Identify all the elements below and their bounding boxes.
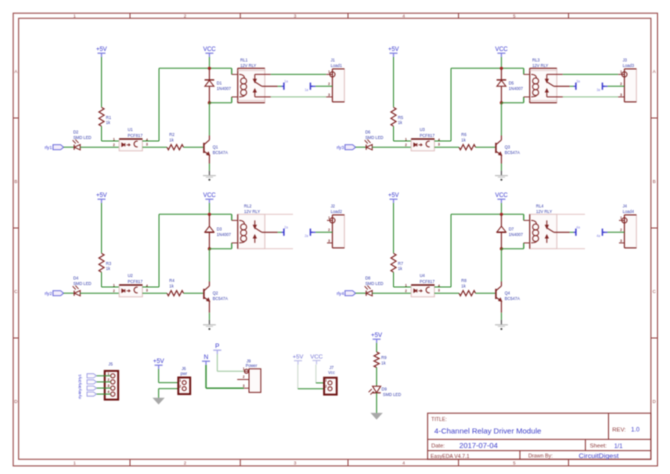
svg-text:Power: Power	[246, 363, 258, 368]
svg-text:4-Channel Relay Driver Module: 4-Channel Relay Driver Module	[434, 426, 541, 435]
svg-text:1a: 1a	[284, 80, 288, 84]
svg-text:2: 2	[243, 375, 245, 379]
svg-text:U1: U1	[128, 127, 134, 132]
svg-text:D6: D6	[365, 130, 371, 135]
svg-text:1: 1	[243, 367, 245, 371]
svg-text:1a: 1a	[305, 88, 309, 92]
svg-text:TITLE:: TITLE:	[431, 417, 447, 423]
svg-text:3a: 3a	[576, 80, 580, 84]
svg-text:EasyEDA V4.7.1: EasyEDA V4.7.1	[431, 454, 470, 460]
svg-text:rly4: rly4	[77, 392, 82, 399]
svg-text:Load3: Load3	[623, 63, 635, 68]
svg-text:5: 5	[513, 461, 516, 466]
svg-text:2: 2	[184, 13, 187, 18]
svg-text:2a: 2a	[305, 234, 309, 238]
svg-text:12V RLY: 12V RLY	[244, 209, 260, 214]
svg-text:BC547A: BC547A	[213, 296, 229, 301]
svg-text:R2: R2	[169, 132, 175, 137]
svg-text:2a: 2a	[284, 226, 288, 230]
svg-text:CircuitDigest: CircuitDigest	[579, 453, 619, 460]
svg-text:3: 3	[438, 289, 440, 293]
svg-text:rly1: rly1	[45, 145, 53, 150]
svg-text:B: B	[14, 179, 17, 184]
svg-text:1: 1	[73, 461, 76, 466]
svg-text:1k: 1k	[398, 120, 403, 125]
svg-text:2: 2	[108, 378, 110, 382]
svg-text:D2: D2	[73, 130, 79, 135]
svg-text:rly4: rly4	[337, 291, 345, 296]
svg-text:1k: 1k	[461, 283, 466, 288]
svg-text:4: 4	[402, 461, 405, 466]
svg-text:1: 1	[113, 284, 115, 288]
svg-text:1N4007: 1N4007	[217, 86, 232, 91]
svg-text:4a: 4a	[597, 234, 601, 238]
svg-text:1: 1	[179, 378, 181, 382]
svg-text:+5V: +5V	[371, 332, 383, 339]
svg-text:VCC: VCC	[203, 193, 216, 199]
svg-text:D5: D5	[509, 80, 515, 85]
svg-text:1: 1	[620, 216, 622, 220]
svg-text:1k: 1k	[398, 266, 403, 271]
svg-text:3: 3	[243, 384, 245, 388]
svg-text:+5V: +5V	[388, 193, 399, 199]
svg-text:4a: 4a	[576, 226, 580, 230]
svg-text:1: 1	[113, 138, 115, 142]
svg-text:1.0: 1.0	[631, 427, 640, 434]
svg-text:+5V: +5V	[388, 47, 399, 53]
svg-text:VCC: VCC	[203, 47, 216, 53]
svg-text:SMD LED: SMD LED	[365, 281, 383, 286]
svg-text:RL1: RL1	[240, 58, 248, 63]
svg-text:2: 2	[184, 461, 187, 466]
svg-text:RL2: RL2	[244, 204, 252, 209]
svg-text:3: 3	[294, 461, 297, 466]
svg-text:1k: 1k	[381, 361, 386, 366]
svg-text:2: 2	[325, 385, 327, 389]
svg-text:Load1: Load1	[331, 63, 343, 68]
svg-text:3: 3	[146, 143, 148, 147]
svg-text:12V RLY: 12V RLY	[532, 63, 548, 68]
svg-text:Sheet:: Sheet:	[590, 444, 607, 450]
svg-text:A: A	[653, 69, 657, 74]
svg-text:PCF817: PCF817	[420, 133, 436, 138]
svg-text:D7: D7	[509, 226, 515, 231]
svg-text:D9: D9	[382, 386, 388, 391]
svg-text:3: 3	[108, 384, 110, 388]
svg-text:Drawn By:: Drawn By:	[528, 454, 553, 460]
svg-text:2: 2	[328, 82, 330, 86]
svg-text:2: 2	[405, 289, 407, 293]
svg-text:1k: 1k	[461, 137, 466, 142]
svg-text:P: P	[215, 343, 219, 350]
svg-text:2: 2	[620, 82, 622, 86]
svg-text:VCC: VCC	[310, 354, 323, 360]
svg-text:R9: R9	[381, 355, 387, 360]
svg-text:rly1: rly1	[77, 373, 82, 380]
svg-text:Q4: Q4	[505, 290, 511, 295]
svg-text:D4: D4	[73, 276, 79, 281]
svg-text:2: 2	[113, 143, 115, 147]
svg-text:C: C	[14, 289, 18, 294]
svg-text:RL3: RL3	[532, 58, 540, 63]
svg-text:C: C	[653, 289, 657, 294]
svg-text:rly2: rly2	[45, 291, 53, 296]
svg-text:+5V: +5V	[96, 193, 107, 199]
svg-text:U3: U3	[420, 127, 426, 132]
svg-text:REV:: REV:	[612, 428, 626, 434]
svg-text:SMD LED: SMD LED	[73, 135, 91, 140]
svg-text:+5V: +5V	[96, 47, 107, 53]
svg-text:+5V: +5V	[293, 355, 304, 361]
svg-text:Q2: Q2	[213, 290, 219, 295]
svg-text:Load4: Load4	[623, 209, 635, 214]
svg-text:1: 1	[325, 379, 327, 383]
svg-text:12V RLY: 12V RLY	[536, 209, 552, 214]
svg-text:J1: J1	[331, 57, 336, 62]
svg-text:rly3: rly3	[337, 145, 345, 150]
svg-text:rly3: rly3	[77, 386, 82, 393]
svg-text:D3: D3	[217, 226, 223, 231]
svg-text:pwr: pwr	[180, 371, 187, 376]
svg-text:BC547A: BC547A	[505, 150, 521, 155]
svg-text:3a: 3a	[597, 88, 601, 92]
svg-text:12V RLY: 12V RLY	[240, 63, 256, 68]
svg-text:4: 4	[402, 13, 405, 18]
svg-text:PCF817: PCF817	[128, 133, 144, 138]
svg-text:1N4007: 1N4007	[509, 86, 524, 91]
svg-text:2: 2	[620, 228, 622, 232]
svg-text:1: 1	[405, 138, 407, 142]
svg-text:3: 3	[438, 143, 440, 147]
svg-text:RL4: RL4	[536, 204, 544, 209]
svg-text:2: 2	[328, 228, 330, 232]
svg-text:Date:: Date:	[431, 444, 445, 450]
svg-text:Q1: Q1	[213, 144, 219, 149]
svg-text:J3: J3	[623, 57, 628, 62]
svg-text:3: 3	[620, 239, 622, 243]
svg-text:VCC: VCC	[495, 47, 508, 53]
svg-text:A: A	[14, 69, 18, 74]
svg-text:Vcc: Vcc	[328, 370, 335, 375]
svg-text:4: 4	[108, 390, 110, 394]
svg-text:5: 5	[513, 13, 516, 18]
svg-text:1/1: 1/1	[614, 443, 623, 450]
svg-text:B: B	[653, 179, 656, 184]
svg-text:U2: U2	[128, 273, 134, 278]
svg-text:J2: J2	[331, 203, 336, 208]
svg-text:D8: D8	[365, 276, 371, 281]
svg-text:1: 1	[108, 372, 110, 376]
svg-text:R8: R8	[461, 278, 467, 283]
svg-text:3: 3	[294, 13, 297, 18]
svg-text:1k: 1k	[106, 266, 111, 271]
svg-text:1: 1	[405, 284, 407, 288]
svg-text:VCC: VCC	[495, 193, 508, 199]
svg-text:3: 3	[328, 93, 330, 97]
svg-text:D1: D1	[217, 80, 223, 85]
svg-text:1: 1	[73, 13, 76, 18]
svg-text:3: 3	[146, 289, 148, 293]
svg-text:U4: U4	[420, 273, 426, 278]
svg-text:+5V: +5V	[153, 358, 165, 365]
svg-text:1N4007: 1N4007	[217, 232, 232, 237]
svg-text:3: 3	[620, 93, 622, 97]
svg-text:2: 2	[405, 143, 407, 147]
svg-text:N: N	[204, 354, 209, 361]
svg-text:1: 1	[328, 216, 330, 220]
svg-text:3: 3	[328, 239, 330, 243]
svg-text:R6: R6	[461, 132, 467, 137]
svg-text:BC547A: BC547A	[213, 150, 229, 155]
svg-text:PCF817: PCF817	[128, 279, 144, 284]
svg-text:1k: 1k	[169, 283, 174, 288]
svg-text:SMD LED: SMD LED	[365, 135, 383, 140]
svg-text:2017-07-04: 2017-07-04	[459, 443, 498, 450]
svg-text:BC547A: BC547A	[505, 296, 521, 301]
svg-text:2: 2	[113, 289, 115, 293]
svg-text:SMD LED: SMD LED	[73, 281, 91, 286]
svg-text:R4: R4	[169, 278, 175, 283]
svg-text:SMD LED: SMD LED	[383, 392, 401, 397]
svg-text:PCF817: PCF817	[420, 279, 436, 284]
svg-text:J4: J4	[623, 203, 628, 208]
svg-text:D: D	[14, 399, 18, 404]
svg-text:1: 1	[620, 70, 622, 74]
svg-text:1k: 1k	[106, 120, 111, 125]
svg-text:1N4007: 1N4007	[509, 232, 524, 237]
svg-text:J5: J5	[108, 361, 113, 366]
svg-text:1: 1	[328, 70, 330, 74]
svg-text:2: 2	[179, 385, 181, 389]
svg-text:rly2: rly2	[77, 379, 82, 386]
svg-text:1k: 1k	[169, 137, 174, 142]
svg-text:Load2: Load2	[331, 209, 343, 214]
svg-text:Q3: Q3	[505, 144, 511, 149]
svg-text:D: D	[653, 399, 657, 404]
